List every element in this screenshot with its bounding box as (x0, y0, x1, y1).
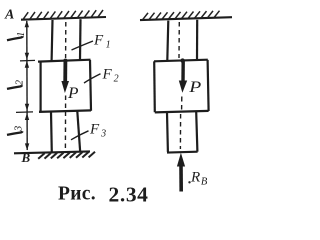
ceiling hatching (right) (143, 11, 220, 20)
top narrow rod (left diagram) (52, 19, 81, 60)
force label F2 + leader (84, 74, 101, 83)
svg-text:2.34: 2.34 (109, 183, 149, 207)
extension tick at first step (20, 59, 35, 62)
force label F1 + leader (72, 41, 94, 50)
wide block (right diagram) (154, 60, 209, 113)
svg-text:A: A (4, 8, 14, 23)
block bottom edge (39, 110, 91, 112)
axis dashes block lower + bottom rod (left) (64, 96, 66, 151)
dimension label l2 (rotated stroke + digit) (7, 79, 26, 89)
dimension line (left, x=27) (26, 21, 28, 150)
block right edge (208, 60, 209, 111)
top narrow rod (right diagram) (167, 20, 197, 61)
floor hatching (left) (38, 152, 95, 159)
block bottom edge (155, 111, 209, 113)
bottom narrow rod (right diagram) (167, 112, 197, 152)
block top edge (38, 60, 91, 62)
block left edge (153, 61, 156, 112)
dim arrowheads (25, 20, 30, 150)
axis dashes bottom rod (right) (179, 114, 181, 149)
load P arrow (right): junction dot, shaft, head (180, 58, 184, 62)
ceiling hatching (left) (23, 10, 103, 19)
ink dot near RB (188, 181, 190, 183)
svg-text:P: P (67, 85, 79, 102)
extension tick at second step (16, 111, 33, 114)
block left edge (39, 61, 41, 111)
svg-text:Рис.: Рис. (58, 184, 96, 205)
dimension label l3 (rotated stroke + digit) (7, 126, 25, 135)
reaction arrow RB (179, 166, 183, 192)
svg-text:1: 1 (16, 32, 27, 37)
rod bottom end line (right) (167, 151, 198, 154)
bottom narrow rod (left diagram) (51, 111, 80, 152)
svg-text:3: 3 (14, 126, 25, 132)
ceiling support line (left) (21, 17, 106, 20)
axis dashes in top rod (left) (65, 22, 67, 58)
load P arrow (left): junction dot, shaft, head (63, 59, 67, 63)
svg-text:2: 2 (15, 79, 26, 85)
floor support line (left) (14, 151, 90, 153)
svg-text:P: P (188, 79, 201, 96)
block right edge (90, 60, 91, 111)
axis dashes in top rod (right) (178, 22, 180, 58)
ceiling support line (right) (140, 17, 232, 20)
force label F3 + leader (71, 131, 89, 140)
block top edge (154, 60, 208, 62)
axis dash below P tip (right) (181, 97, 183, 110)
dimension label l1 (rotated stroke + digit) (7, 32, 27, 41)
wide block (left diagram) (38, 60, 91, 112)
